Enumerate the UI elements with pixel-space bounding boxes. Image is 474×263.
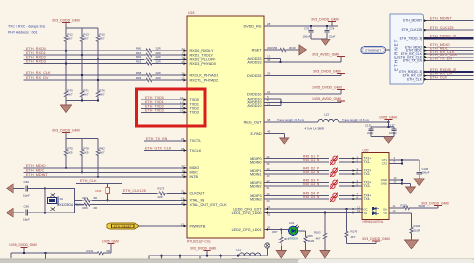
svg-text:510R: 510R	[414, 229, 421, 233]
svg-text:ETH_CLK125: ETH_CLK125	[402, 28, 423, 32]
capacitor C136 100nF (CT)	[417, 160, 430, 179]
svg-text:31: 31	[267, 205, 271, 209]
svg-text:29: 29	[267, 199, 270, 203]
svg-text:510R: 510R	[308, 239, 315, 243]
svg-text:17: 17	[182, 164, 186, 168]
svg-text:19: 19	[180, 109, 184, 113]
svg-text:AVDD10: AVDD10	[247, 104, 261, 108]
svg-text:ETH_CLK125: ETH_CLK125	[430, 26, 453, 30]
wire net ETH_CLK	[76, 179, 122, 183]
IC U18 right pin names	[232, 24, 263, 232]
svg-text:TXC / RXC - delays 2ns: TXC / RXC - delays 2ns	[8, 25, 45, 29]
svg-text:INTB: INTB	[190, 175, 199, 179]
svg-text:22R: 22R	[156, 71, 161, 75]
svg-text:LED2_CFG_LD01: LED2_CFG_LD01	[232, 228, 262, 232]
svg-text:3V3_DVDD_GMII: 3V3_DVDD_GMII	[311, 17, 339, 21]
svg-text:R45_D2_N: R45_D2_N	[303, 170, 320, 174]
differential pair symbol 4	[329, 193, 339, 202]
svg-text:4K7: 4K7	[67, 37, 73, 41]
svg-text:12: 12	[393, 209, 397, 213]
resistor R67 4K7	[272, 230, 289, 251]
svg-text:R45_D4_N: R45_D4_N	[303, 195, 320, 199]
wire net ETH_TXD0	[141, 96, 187, 101]
ground	[406, 187, 416, 194]
svg-text:100nF: 100nF	[303, 35, 311, 39]
svg-text:R173: R173	[158, 186, 165, 190]
svg-text:35: 35	[267, 162, 270, 166]
power flag 3V3_DVDD_GMII (DVDD_RG)	[311, 17, 339, 26]
wire net ETH_TX_EN	[144, 137, 187, 142]
svg-text:3V3_DVDD_GMII: 3V3_DVDD_GMII	[313, 69, 341, 73]
svg-text:R176: R176	[351, 230, 358, 234]
svg-text:26: 26	[181, 137, 185, 141]
wire AVDD10 pins to flag	[264, 95, 341, 106]
resistor R66 510R (LED)	[304, 234, 314, 251]
svg-text:TXCTL: TXCTL	[190, 139, 202, 143]
wire DVDD10 to flag	[264, 90, 341, 95]
svg-text:ETH_CLK: ETH_CLK	[430, 75, 448, 79]
svg-text:LED1_CFG_LD00: LED1_CFG_LD00	[232, 211, 262, 215]
svg-text:REG_OUT: REG_OUT	[244, 120, 263, 124]
svg-text:R156: R156	[271, 46, 278, 50]
resistor R162 510R	[410, 224, 421, 240]
svg-text:4K7: 4K7	[67, 93, 73, 97]
svg-text:MDIN3: MDIN3	[250, 197, 261, 201]
wire net ETH_RXD3 with series resistor 22R	[24, 60, 187, 66]
harness connector body	[390, 14, 424, 84]
resistor R12 4K7	[64, 28, 73, 88]
wire MDI pair 1 P	[264, 155, 352, 159]
svg-text:35: 35	[267, 225, 271, 229]
harness entries	[399, 19, 423, 82]
svg-text:L13: L13	[324, 113, 329, 117]
svg-text:C76: C76	[304, 27, 310, 31]
power flag 1V05_GMII bottom	[102, 240, 119, 253]
svg-text:30: 30	[267, 192, 270, 196]
wire net ETH_RXD2 with series resistor 22R	[24, 55, 187, 61]
svg-text:U30: U30	[363, 149, 369, 153]
svg-text:Trace length <0.5 cm: Trace length <0.5 cm	[277, 118, 305, 122]
svg-text:4K7: 4K7	[83, 93, 89, 97]
capacitor C131 22uF	[365, 124, 374, 137]
wire DVDD33 to flag	[264, 71, 341, 75]
svg-text:32: 32	[267, 179, 270, 183]
svg-text:22R: 22R	[156, 76, 161, 80]
svg-text:ETH_TX_EN: ETH_TX_EN	[430, 56, 452, 60]
svg-text:TXCLK: TXCLK	[190, 149, 202, 153]
wire CT1 CT2 tie	[389, 156, 419, 164]
svg-text:AVDD33: AVDD33	[247, 60, 261, 64]
resistor DNP between ETH_CLK and XTAL_IN	[95, 183, 109, 201]
resistor R156 2K49 (RSET)	[264, 46, 300, 52]
svg-text:R63: R63	[136, 60, 142, 64]
svg-text:LD1: LD1	[289, 221, 295, 225]
wire AVDD33 pins to flag	[264, 54, 341, 63]
ground arrow left (C96)	[7, 208, 25, 217]
power flag 3V3_DVDD_GMII (RJ45 LED)	[421, 201, 449, 205]
svg-text:4K7: 4K7	[99, 151, 105, 155]
power flag 3V3_DVDD_GMII (DVDD33)	[313, 69, 345, 73]
ground	[280, 138, 289, 144]
wire net ETH_MDC (right)	[424, 47, 474, 52]
wire MDI pair 1 N	[264, 158, 352, 166]
svg-text:22R: 22R	[158, 195, 163, 199]
connector U30 right pin names and internal LEDs	[364, 158, 388, 215]
wire net ETH_CLK125 (right)	[424, 26, 474, 31]
svg-text:R64: R64	[83, 196, 89, 200]
resistor R78 1K5	[80, 138, 89, 173]
resistor R176 4K7 (LED0 pullup)	[345, 209, 376, 244]
svg-text:26: 26	[182, 71, 186, 75]
svg-text:11: 11	[267, 102, 270, 106]
svg-text:R131: R131	[87, 249, 94, 253]
svg-text:ETH_CLK125: ETH_CLK125	[123, 189, 146, 193]
wire LED1 row	[264, 211, 352, 216]
svg-text:RSET: RSET	[252, 48, 263, 52]
svg-text:1V05_DVDD_GMII: 1V05_DVDD_GMII	[312, 85, 342, 89]
svg-text:C96: C96	[24, 204, 30, 208]
svg-text:22R: 22R	[156, 60, 161, 64]
scrollbar thumb	[298, 259, 474, 263]
svg-text:25: 25	[182, 60, 186, 64]
wire pulldown ground rail	[66, 99, 99, 105]
resistor R15 4K7	[96, 28, 105, 88]
ground	[384, 137, 394, 144]
capacitor C76 100nF	[303, 25, 314, 39]
ground	[321, 39, 330, 45]
svg-text:R162: R162	[414, 224, 421, 228]
svg-text:DVDD10: DVDD10	[247, 92, 262, 96]
svg-text:4K7: 4K7	[99, 93, 105, 97]
svg-text:36: 36	[267, 155, 270, 159]
wire U30 GND pins	[389, 176, 411, 187]
resistor R82 4K7	[96, 138, 105, 178]
wire MDI pair 4 N	[264, 195, 352, 203]
svg-text:3V3_DVDD_GMII: 3V3_DVDD_GMII	[52, 128, 80, 132]
power flag 3V3_DVDD_GMII top-left	[52, 18, 80, 28]
svg-text:0R: 0R	[107, 249, 111, 253]
svg-text:GREEN: GREEN	[288, 236, 298, 240]
wire RJ45 LED cathode	[389, 209, 412, 224]
svg-text:2K49: 2K49	[289, 46, 296, 50]
svg-text:1V05_GMII: 1V05_GMII	[102, 240, 119, 244]
svg-text:CLKOUT: CLKOUT	[190, 192, 206, 196]
power flag 3V3_DVDD_GMII bottom center	[190, 246, 216, 255]
svg-text:20: 20	[181, 201, 185, 205]
svg-text:HR961160TNL: HR961160TNL	[363, 220, 384, 224]
svg-text:ETH_RESET: ETH_RESET	[114, 225, 132, 229]
svg-text:21: 21	[182, 173, 186, 177]
wire PWRSTB	[139, 222, 188, 227]
wire net ETH_GTX_CLK	[144, 146, 187, 151]
inductor L11 1000R ferrite	[232, 248, 261, 261]
svg-text:ETH_TX_EN: ETH_TX_EN	[146, 137, 168, 141]
svg-text:YC: YC	[383, 211, 387, 215]
resistor R13 4K7	[80, 28, 89, 88]
power flag 1V05_DVDD_GMII (DVDD10)	[312, 85, 345, 89]
svg-text:XTAL_OUT_EXT_CLK: XTAL_OUT_EXT_CLK	[190, 203, 228, 207]
ground	[320, 251, 330, 259]
svg-text:46: 46	[267, 58, 271, 62]
svg-text:YA: YA	[364, 211, 368, 215]
svg-text:26: 26	[182, 76, 186, 80]
svg-text:U18: U18	[188, 11, 194, 15]
svg-text:NX3225GA 25MHz: NX3225GA 25MHz	[57, 203, 84, 207]
svg-text:0R: 0R	[94, 206, 98, 210]
differential pair symbol 2	[329, 168, 339, 177]
svg-text:E-PAD: E-PAD	[251, 132, 262, 136]
wire net ETH_MDINT	[24, 173, 187, 178]
wire E-PAD	[264, 129, 284, 138]
svg-text:RXD3_PHYAD0: RXD3_PHYAD0	[190, 62, 216, 66]
svg-text:ETH_MDINT: ETH_MDINT	[430, 17, 452, 21]
svg-text:R66: R66	[308, 234, 314, 238]
wire MDI pair 2 N	[264, 170, 352, 178]
svg-text:ETH_MDINT: ETH_MDINT	[403, 19, 422, 23]
wire net ETH_CLK (right)	[424, 75, 474, 80]
power flag 3V3_DVDD_GMII mdio group	[52, 128, 80, 138]
svg-text:TX3-: TX3-	[364, 184, 371, 188]
svg-text:ETH_CLK: ETH_CLK	[80, 179, 97, 183]
svg-text:PHY Address : 001: PHY Address : 001	[8, 31, 38, 35]
svg-text:3V3_DVDD_GMII: 3V3_DVDD_GMII	[52, 18, 80, 22]
svg-text:ETH_RX_CLK: ETH_RX_CLK	[26, 71, 51, 75]
differential pair symbol 3	[329, 180, 339, 189]
connector U30 TX pins	[352, 155, 371, 201]
wire 1V05 to caps	[371, 122, 394, 128]
resistor R71 4K7 pulldown	[80, 74, 89, 101]
svg-text:ETH_TXD[0..3]: ETH_TXD[0..3]	[430, 34, 456, 38]
svg-text:ETH_CLK: ETH_CLK	[407, 77, 423, 81]
svg-text:29: 29	[267, 71, 271, 75]
svg-text:22uF: 22uF	[367, 131, 374, 135]
svg-text:28: 28	[181, 147, 185, 151]
wire net ETH_MDIO (right)	[424, 43, 474, 48]
svg-text:R66: R66	[83, 206, 89, 210]
svg-text:1K5: 1K5	[83, 151, 89, 155]
svg-text:34: 34	[267, 167, 270, 171]
svg-text:1V05_AVDD_GMII: 1V05_AVDD_GMII	[312, 97, 341, 101]
wire XTAL_IN with resistor R64 0R	[75, 196, 188, 202]
svg-text:DNP: DNP	[95, 189, 101, 193]
svg-text:R68: R68	[136, 71, 142, 75]
svg-text:1K5: 1K5	[67, 151, 73, 155]
wire port to harness	[385, 49, 390, 51]
svg-text:R67: R67	[272, 230, 278, 234]
wire net ETH_RXD[0..3] (right)	[424, 68, 474, 73]
svg-text:ETH_GTX_CLK: ETH_GTX_CLK	[145, 146, 172, 150]
svg-text:10pF: 10pF	[23, 193, 30, 197]
svg-text:MDIN2: MDIN2	[250, 184, 261, 188]
wire RJ45 LED anode to R132	[389, 203, 438, 209]
svg-text:L11: L11	[237, 248, 242, 252]
svg-text:CT2: CT2	[382, 162, 388, 166]
connector stub LED pins	[352, 205, 363, 214]
note TXC/RXC delays	[8, 25, 45, 35]
svg-text:R163: R163	[314, 231, 321, 235]
capacitor C92 10pF	[23, 180, 46, 197]
svg-text:TX4-: TX4-	[364, 197, 371, 201]
port ETHERNET oval	[361, 47, 386, 54]
differential pair symbol 1	[329, 156, 339, 165]
svg-text:33: 33	[267, 174, 270, 178]
wire caps ground rail	[371, 136, 394, 138]
wire after L13	[339, 118, 390, 123]
svg-text:R132: R132	[401, 203, 408, 207]
svg-text:4K7: 4K7	[99, 37, 105, 41]
wire mdio pull-up rail	[66, 137, 98, 139]
wire MDI pair 2 P	[264, 167, 352, 171]
ground	[276, 251, 286, 259]
svg-text:ETH_MDIO: ETH_MDIO	[26, 164, 46, 168]
inductor L13 4.7uH	[305, 113, 339, 131]
wire net ETH_RX_DV with series resistor 22R	[24, 76, 187, 82]
resistor R76 4K7 pulldown	[96, 79, 105, 101]
svg-text:31: 31	[267, 186, 270, 190]
svg-text:ETH_RXD3: ETH_RXD3	[26, 60, 46, 64]
svg-text:MDIN1: MDIN1	[250, 172, 261, 176]
wire net ETH_MDC	[24, 168, 187, 173]
capacitor C78 22uF	[324, 25, 335, 39]
wire net ETH_RXD0 with series resistor 22R	[24, 47, 187, 53]
svg-text:ETH_MDINT: ETH_MDINT	[26, 173, 48, 177]
svg-text:22uF: 22uF	[329, 35, 336, 39]
svg-text:38: 38	[267, 118, 271, 122]
svg-text:13: 13	[357, 209, 361, 213]
wire bottom decoupling rail	[149, 255, 267, 263]
svg-text:Trace length <0.5 cm: Trace length <0.5 cm	[342, 118, 370, 122]
wire MDI pair 4 P	[264, 192, 352, 196]
svg-text:4K7: 4K7	[316, 237, 321, 241]
svg-text:PWRSTB: PWRSTB	[190, 224, 206, 228]
wire bottom-left rail	[11, 252, 95, 263]
IC U18 RTL8211 body	[187, 11, 264, 244]
svg-text:ETH_TXD[0..3]: ETH_TXD[0..3]	[400, 37, 422, 41]
wire LED0 row	[264, 205, 352, 210]
wire net ETH_RX_CLK (right)	[424, 50, 474, 55]
wire net ETH_RX_DV (right)	[424, 72, 474, 77]
svg-text:11: 11	[393, 204, 396, 208]
ground	[301, 251, 311, 259]
svg-text:100nF: 100nF	[422, 171, 430, 175]
wire XTAL_OUT with resistor R66 0R	[75, 201, 188, 210]
wire cap ground rail	[311, 38, 327, 41]
scrollbar track	[0, 259, 474, 263]
svg-text:21: 21	[267, 90, 271, 94]
svg-text:1V05_GMII: 1V05_GMII	[379, 115, 397, 119]
svg-text:ETH_TX_EN: ETH_TX_EN	[403, 59, 423, 63]
svg-text:ETH_MDC: ETH_MDC	[26, 168, 45, 172]
svg-text:18pF: 18pF	[23, 218, 30, 222]
svg-text:4.7uH 1A 380R: 4.7uH 1A 380R	[305, 126, 325, 130]
resistor R70 4K7 pulldown	[64, 63, 73, 101]
net tag ETH_RESET	[107, 223, 140, 229]
svg-text:16: 16	[182, 169, 186, 173]
LED LD1 GREEN	[281, 221, 305, 240]
svg-text:C137: C137	[388, 124, 395, 128]
svg-text:X2: X2	[60, 197, 64, 201]
svg-text:R69: R69	[136, 76, 142, 80]
svg-text:3V3_DVDD_GMII: 3V3_DVDD_GMII	[421, 201, 449, 205]
ground	[414, 179, 424, 186]
svg-text:ETHERNET: ETHERNET	[365, 48, 381, 52]
ground arrow left (C92)	[7, 184, 25, 193]
wire MDI pair 3 N	[264, 182, 352, 190]
svg-text:15: 15	[181, 222, 185, 226]
svg-text:100nF: 100nF	[389, 131, 397, 135]
svg-text:DVDD33: DVDD33	[247, 74, 262, 78]
resistor R75 1K5	[64, 138, 73, 169]
svg-text:MDIN0: MDIN0	[250, 160, 261, 164]
svg-text:28: 28	[267, 22, 271, 26]
svg-text:3V3_DVDD_GMII: 3V3_DVDD_GMII	[190, 246, 216, 250]
wire L11 to net tie circle	[260, 243, 270, 256]
wire net ETH_MDINT (right)	[424, 17, 474, 22]
wire pull-up rail	[66, 27, 98, 29]
resistor R163 4K7 (LED1 pulldown)	[314, 213, 327, 251]
wire MDI pair 3 P	[264, 179, 352, 183]
ground	[405, 240, 419, 249]
power flag 3V3_AVDD_GMII	[312, 52, 345, 56]
crystal X2 NX3225GA 25MHz	[45, 188, 84, 212]
svg-text:4K7: 4K7	[351, 235, 356, 239]
wire net ETH_GTX_CLK (right)	[424, 53, 474, 58]
svg-text:RXCTL_PHYAD2: RXCTL_PHYAD2	[190, 78, 219, 82]
svg-text:TX1-: TX1-	[364, 160, 371, 164]
capacitor C96 18pF	[23, 204, 46, 221]
svg-text:ETH_RX_DV: ETH_RX_DV	[26, 76, 49, 80]
svg-text:49: 49	[267, 129, 271, 133]
svg-text:MDC: MDC	[190, 171, 199, 175]
wire REG_OUT trace note	[264, 118, 318, 122]
power flag 1V05_DVDD_GMII bottom-left	[9, 243, 37, 253]
svg-text:3V3_DVDD_GMII: 3V3_DVDD_GMII	[362, 237, 390, 241]
svg-text:TXD3: TXD3	[190, 111, 199, 115]
ground	[60, 105, 71, 113]
svg-text:DVDD_RG: DVDD_RG	[243, 24, 261, 28]
red highlight box around TXD nets	[137, 89, 206, 126]
connector U30 HR961160C body	[362, 149, 389, 225]
svg-text:0R: 0R	[94, 196, 98, 200]
resistor R131 0R	[87, 249, 112, 255]
svg-text:MDIO: MDIO	[190, 166, 200, 170]
svg-text:31: 31	[181, 190, 185, 194]
wire net ETH_CLK125 with resistor R173 22R	[122, 186, 187, 199]
svg-text:C92: C92	[24, 180, 30, 184]
svg-text:GND: GND	[381, 182, 387, 186]
svg-text:R45_D1_N: R45_D1_N	[303, 158, 320, 162]
wire net ETH_TX_EN (right)	[424, 56, 474, 61]
svg-text:1V05_DVDD_GMII: 1V05_DVDD_GMII	[9, 243, 37, 247]
wire net ETH_TXD[0..3] (right)	[424, 34, 474, 39]
svg-text:RXCLK_PHYAD1: RXCLK_PHYAD1	[190, 73, 219, 77]
wire LED2 row	[264, 225, 282, 230]
svg-text:3V3_AVDD_GMII: 3V3_AVDD_GMII	[312, 52, 339, 56]
svg-text:R45_D3_N: R45_D3_N	[303, 182, 320, 186]
wire net ETH_RX_CLK with series resistor 22R	[24, 71, 187, 77]
wire net ETH_TXD2	[141, 104, 187, 109]
svg-text:RTL8211(F-CG): RTL8211(F-CG)	[187, 240, 211, 244]
svg-text:C78: C78	[329, 27, 335, 31]
svg-text:C131: C131	[365, 124, 372, 128]
wire net ETH_MDIO	[24, 164, 187, 169]
ground arrow right (RSET)	[299, 45, 307, 55]
IC U18 left pin names	[190, 49, 228, 228]
wire net ETH_RXD1 with series resistor 22R	[24, 51, 187, 57]
svg-text:ETH_TXD3: ETH_TXD3	[145, 108, 164, 112]
power flag 1V05_AVDD_GMII	[312, 97, 345, 101]
svg-text:TX2-: TX2-	[364, 172, 371, 176]
